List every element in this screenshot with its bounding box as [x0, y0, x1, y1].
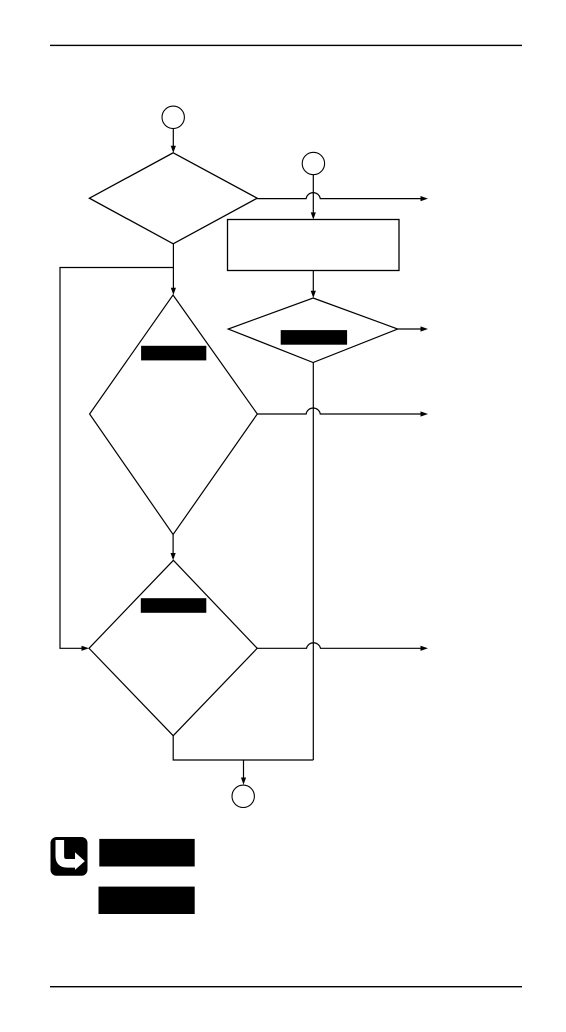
redaction bar in diamond D2	[281, 330, 347, 345]
decision diamond D1	[89, 153, 257, 244]
redaction bar: note line 2	[99, 887, 195, 914]
top header rule	[50, 45, 522, 46]
wire: long vertical from D2 bottom down to bottom junction	[312, 363, 314, 761]
decision diamond D3 (large)	[90, 295, 258, 535]
wire: D4 bottom down and right to bottom junction	[173, 736, 313, 760]
wire: feedback branch left then down then into D4 left vertex	[60, 268, 173, 651]
wire: D1 right vertex to right arrow with hop over vertical line	[257, 193, 428, 202]
wire: bottom junction down to end circle with arrowhead	[241, 760, 246, 785]
decision diamond D4	[89, 560, 257, 735]
start connector circle 1	[162, 106, 184, 128]
end connector circle	[232, 785, 254, 807]
wire: rectangle bottom to diamond D2 with arrowhead	[311, 271, 316, 299]
redaction bar in diamond D4	[141, 598, 207, 613]
bottom footer rule	[50, 986, 522, 987]
note icon: black rounded square with white curved arrow	[51, 837, 88, 876]
decision diamond D2	[228, 298, 398, 363]
wire: circle 2 down to process rectangle with arrowhead	[311, 175, 316, 220]
wire: D3 right vertex to right arrow with hop	[257, 408, 428, 417]
redaction bar in diamond D3	[141, 346, 206, 361]
wire: D1 bottom to branch junction and to diamond D3 with arrowhead	[171, 244, 176, 295]
redaction bar: note line 1	[99, 839, 194, 867]
start connector circle 2	[302, 152, 324, 174]
wire: D3 bottom to diamond D4 with arrowhead	[171, 535, 176, 561]
process rectangle	[228, 220, 400, 271]
wire: D2 right vertex to right arrow	[398, 326, 428, 331]
wire: circle 1 to diamond D1 with arrowhead	[171, 129, 176, 153]
wire: D4 right vertex to right arrow with hop	[257, 643, 428, 651]
